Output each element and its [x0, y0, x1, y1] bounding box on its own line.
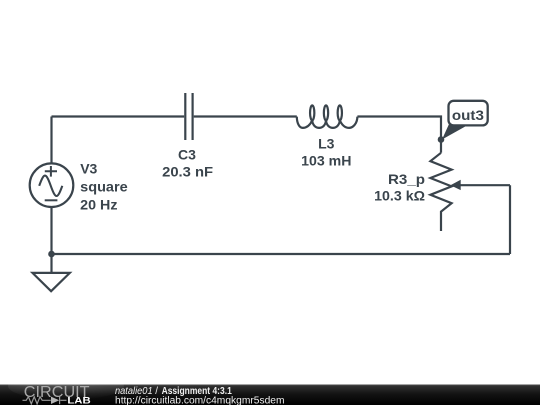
svg-text:out3: out3 [452, 107, 484, 123]
svg-text:10.3 kΩ: 10.3 kΩ [374, 187, 425, 203]
svg-text:square: square [80, 178, 128, 194]
svg-text:20.3 nF: 20.3 nF [162, 164, 213, 180]
svg-text:103 mH: 103 mH [301, 153, 351, 169]
svg-text:V3: V3 [80, 160, 97, 176]
svg-text:http://circuitlab.com/c4mqkgmr: http://circuitlab.com/c4mqkgmr5sdem [115, 395, 285, 405]
svg-text:L3: L3 [318, 136, 335, 152]
svg-text:C3: C3 [178, 147, 196, 163]
svg-text:20 Hz: 20 Hz [80, 196, 117, 212]
svg-text:LAB: LAB [67, 396, 91, 405]
svg-text:R3_p: R3_p [388, 171, 425, 187]
